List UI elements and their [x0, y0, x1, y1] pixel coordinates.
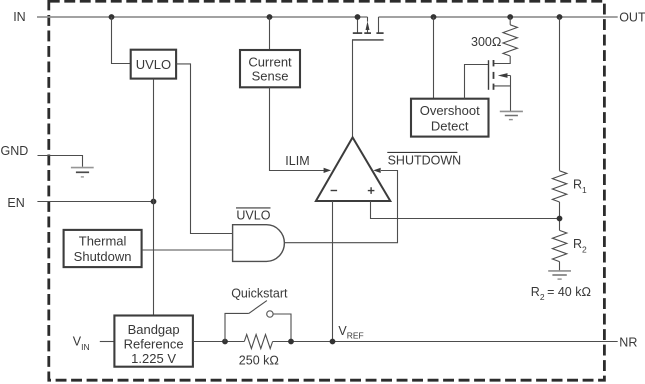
block Overshoot Detect — [411, 99, 489, 137]
wire error amp plus input to feedback divider — [371, 201, 560, 219]
svg-text:R2 = 40 kΩ: R2 = 40 kΩ — [531, 285, 591, 302]
svg-text:SHUTDOWN: SHUTDOWN — [388, 154, 462, 168]
label plus input — [368, 187, 375, 194]
wire AND output to shutdown input of error amp — [284, 171, 397, 243]
svg-text:Current: Current — [248, 54, 292, 69]
block UVLO — [131, 50, 176, 79]
wire error amp inverting input to VREF — [332, 201, 334, 342]
svg-text:OUT: OUT — [619, 11, 645, 25]
label UVLO overline (AND gate) — [236, 208, 271, 223]
svg-text:VREF: VREF — [338, 324, 363, 341]
resistor 250k — [244, 335, 272, 349]
wire OUT rail to R1 — [559, 17, 561, 171]
svg-text:R2: R2 — [573, 237, 587, 255]
svg-text:VIN: VIN — [73, 335, 90, 353]
node feedback junction — [557, 216, 563, 222]
transistor Q1 NMOS channel contact bars — [493, 60, 495, 90]
node IN-CurrentSense junction — [267, 14, 273, 20]
transistor pass PMOS: source stub — [357, 17, 359, 33]
node IN-PMOS source junction — [355, 14, 361, 20]
svg-text:Thermal: Thermal — [79, 233, 127, 248]
svg-text:ILIM: ILIM — [285, 154, 309, 168]
transistor pass PMOS: body contact bar — [364, 32, 371, 34]
svg-text:Detect: Detect — [431, 119, 469, 134]
wire OUT rail — [379, 16, 618, 18]
wire 300ohm to NMOS drain — [494, 56, 511, 64]
node quickstart right junction — [288, 339, 294, 345]
transistor Q1 NMOS gate bar — [488, 60, 490, 90]
ground (R2) — [548, 271, 571, 279]
block Bandgap Reference — [114, 316, 192, 367]
svg-text:IN: IN — [13, 10, 26, 24]
wire bandgap output VREF rail to NR — [193, 341, 618, 343]
svg-text:Bandgap: Bandgap — [128, 322, 180, 337]
wire ILIM to error amp inverting side — [270, 87, 325, 170]
block Current Sense — [240, 50, 300, 87]
svg-text:EN: EN — [7, 196, 24, 210]
svg-text:UVLO: UVLO — [236, 208, 270, 222]
wire GND to ground — [38, 156, 83, 167]
transistor pass PMOS: source contact bar — [353, 32, 362, 34]
svg-text:GND: GND — [1, 144, 29, 158]
node quickstart left junction — [222, 339, 228, 345]
svg-text:NR: NR — [619, 335, 637, 349]
svg-text:R1: R1 — [573, 178, 587, 196]
resistor 300ohm — [503, 25, 517, 56]
wire Overshoot Detect to NMOS gate — [465, 65, 489, 99]
transistor pass PMOS: body elbow from IN rail — [367, 17, 369, 22]
wire VIN to bandgap — [100, 341, 115, 343]
wire R2 to ground — [559, 262, 561, 271]
wire UVLO bottom through EN node to bandgap — [153, 79, 155, 316]
node OUT-divider junction — [557, 14, 563, 20]
svg-text:300Ω: 300Ω — [471, 35, 501, 49]
wire EN — [37, 201, 153, 203]
wire PMOS gate to error amp output — [352, 40, 354, 137]
ground (overshoot NMOS) — [500, 111, 523, 119]
svg-text:Shutdown: Shutdown — [74, 249, 132, 264]
label minus input — [331, 190, 338, 192]
resistor R1 — [552, 171, 566, 202]
transistor pass PMOS: gate bar — [352, 39, 384, 41]
node EN junction — [151, 199, 157, 205]
transistor pass PMOS: body arrow — [366, 21, 370, 30]
svg-text:Reference: Reference — [124, 337, 184, 352]
op-amp error amplifier — [316, 137, 390, 201]
node VREF junction — [330, 339, 336, 345]
wire IN rail to UVLO — [112, 17, 131, 64]
wire IN rail — [37, 16, 368, 18]
wire UVLO out to AND gate input 1 — [176, 64, 233, 234]
svg-text:250 kΩ: 250 kΩ — [239, 354, 279, 368]
block Thermal Shutdown — [64, 230, 142, 267]
svg-text:UVLO: UVLO — [136, 57, 171, 72]
arrowhead ILIM — [324, 168, 331, 173]
wire Thermal Shutdown to AND gate input 2 — [142, 249, 233, 251]
node OUT-300ohm junction — [507, 14, 513, 20]
node IN-Overshoot junction — [431, 14, 437, 20]
gate AND (UVLO/thermal) — [233, 225, 285, 262]
svg-text:Quickstart: Quickstart — [231, 287, 288, 301]
svg-text:Overshoot: Overshoot — [420, 103, 480, 118]
transistor pass PMOS: drain contact bar — [376, 32, 383, 34]
ground (GND pin) — [71, 168, 94, 177]
wire IN rail to Overshoot Detect — [433, 17, 435, 99]
wire OUT rail to 300ohm resistor — [509, 17, 511, 25]
wire R1 to R2 — [559, 202, 561, 230]
wire IN rail to Current Sense — [269, 17, 271, 50]
transistor Q1 NMOS body arrow — [498, 73, 508, 78]
svg-text:Sense: Sense — [252, 69, 289, 84]
svg-text:1.225 V: 1.225 V — [131, 351, 176, 366]
transistor pass PMOS: drain stub — [378, 17, 380, 33]
label SHUTDOWN with overline — [387, 152, 461, 167]
transistor pass PMOS: body arrow stem — [367, 30, 369, 34]
arrowhead shutdown — [373, 168, 380, 173]
wire NMOS body and source to ground — [494, 76, 511, 112]
node IN-UVLO junction — [109, 14, 115, 20]
switch Quickstart — [225, 301, 291, 342]
resistor R2 — [552, 230, 566, 261]
